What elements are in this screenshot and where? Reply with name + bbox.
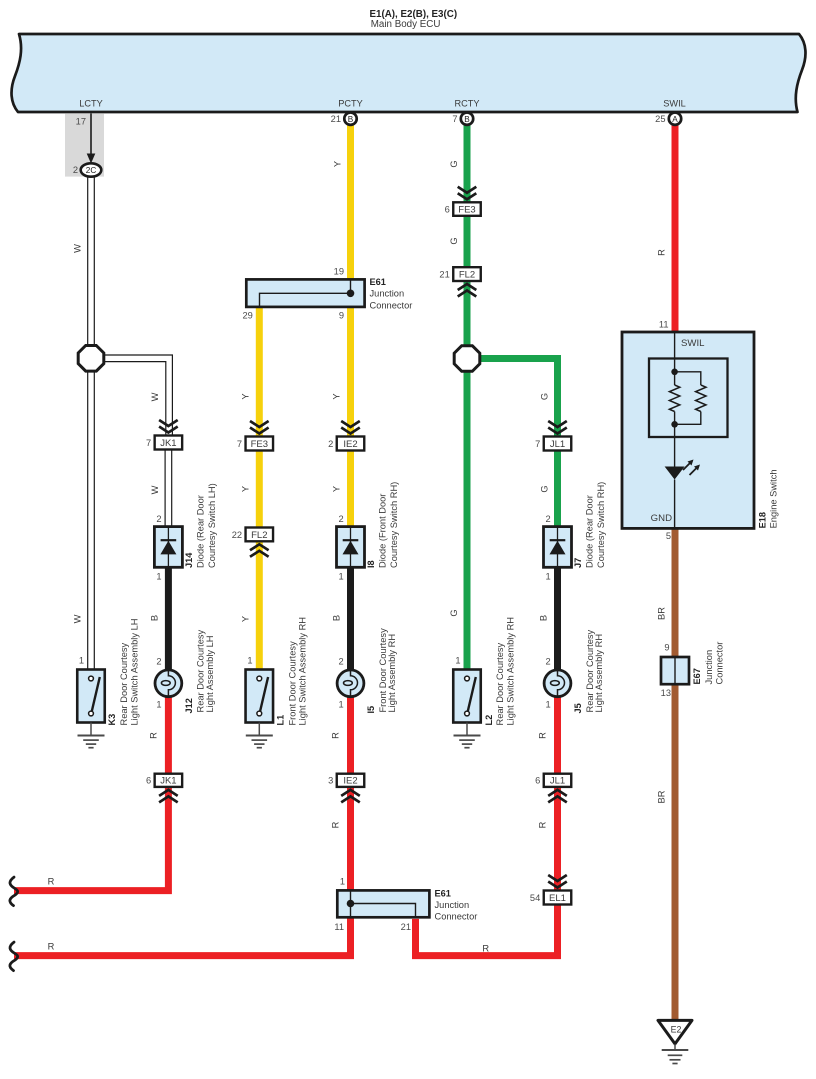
svg-text:Rear Door Courtesy: Rear Door Courtesy [119, 642, 129, 725]
svg-text:FE3: FE3 [458, 204, 475, 215]
svg-text:21: 21 [439, 270, 449, 280]
svg-text:B: B [150, 615, 160, 621]
svg-text:RCTY: RCTY [454, 99, 479, 109]
svg-text:2: 2 [156, 514, 161, 524]
svg-text:1: 1 [340, 877, 345, 887]
svg-text:2: 2 [546, 514, 551, 524]
svg-text:FE3: FE3 [251, 439, 268, 450]
svg-text:R: R [48, 877, 55, 887]
svg-text:JL1: JL1 [550, 439, 565, 450]
svg-text:E61: E61 [370, 277, 386, 287]
svg-text:Courtesy Switch RH): Courtesy Switch RH) [389, 482, 399, 568]
svg-text:Diode (Front Door: Diode (Front Door [378, 494, 388, 568]
svg-text:E61: E61 [435, 888, 451, 898]
svg-text:Front Door Courtesy: Front Door Courtesy [287, 641, 297, 726]
svg-text:R: R [538, 732, 548, 739]
svg-text:Junction: Junction [704, 650, 714, 685]
svg-text:1: 1 [455, 656, 460, 666]
svg-text:Y: Y [333, 161, 343, 167]
svg-text:G: G [540, 485, 550, 492]
svg-text:1: 1 [79, 656, 84, 666]
svg-text:Y: Y [241, 486, 251, 492]
svg-text:1: 1 [156, 572, 161, 582]
svg-text:W: W [150, 392, 160, 401]
svg-text:I5: I5 [366, 706, 376, 714]
svg-text:G: G [449, 160, 459, 167]
svg-text:2: 2 [73, 165, 78, 175]
svg-text:22: 22 [232, 530, 242, 540]
svg-text:25: 25 [655, 114, 665, 124]
svg-text:B: B [539, 615, 549, 621]
svg-text:R: R [331, 732, 341, 739]
svg-text:Junction: Junction [435, 900, 470, 910]
svg-text:R: R [657, 249, 667, 256]
svg-text:7: 7 [146, 438, 151, 448]
svg-text:21: 21 [401, 922, 411, 932]
svg-text:B: B [332, 615, 342, 621]
svg-text:2: 2 [339, 514, 344, 524]
svg-text:Engine Switch: Engine Switch [769, 469, 779, 528]
svg-text:E2: E2 [671, 1025, 682, 1035]
svg-text:7: 7 [535, 439, 540, 449]
svg-text:11: 11 [659, 320, 669, 330]
svg-text:Connector: Connector [370, 300, 413, 310]
svg-text:3: 3 [328, 776, 333, 786]
svg-text:R: R [149, 732, 159, 739]
svg-text:G: G [449, 237, 459, 244]
svg-text:2: 2 [328, 439, 333, 449]
svg-text:G: G [449, 609, 459, 616]
svg-text:G: G [540, 393, 550, 400]
svg-text:Diode (Rear Door: Diode (Rear Door [196, 495, 206, 568]
svg-text:B: B [464, 115, 470, 124]
svg-text:W: W [73, 244, 83, 253]
svg-text:FL2: FL2 [459, 270, 475, 281]
svg-text:Y: Y [332, 486, 342, 492]
svg-text:1: 1 [156, 700, 161, 710]
svg-text:6: 6 [146, 776, 151, 786]
svg-text:Connector: Connector [435, 912, 478, 922]
svg-text:J7: J7 [573, 558, 583, 568]
svg-text:J14: J14 [184, 552, 194, 568]
svg-text:I8: I8 [366, 560, 376, 568]
svg-text:BR: BR [657, 607, 667, 620]
svg-text:2C: 2C [86, 166, 97, 175]
svg-text:9: 9 [339, 311, 344, 321]
svg-text:A: A [672, 115, 678, 124]
svg-text:R: R [331, 821, 341, 828]
svg-text:5: 5 [666, 531, 671, 541]
svg-text:JK1: JK1 [160, 438, 176, 449]
svg-text:19: 19 [334, 267, 344, 277]
svg-text:9: 9 [664, 643, 669, 653]
svg-text:29: 29 [242, 311, 252, 321]
svg-text:17: 17 [76, 117, 86, 127]
svg-text:SWIL: SWIL [663, 99, 685, 109]
svg-text:7: 7 [237, 439, 242, 449]
svg-text:JL1: JL1 [550, 776, 565, 787]
svg-text:Rear Door Courtesy: Rear Door Courtesy [495, 642, 505, 725]
svg-text:R: R [482, 944, 489, 954]
svg-text:6: 6 [535, 776, 540, 786]
svg-text:6: 6 [445, 204, 450, 214]
svg-text:R: R [538, 821, 548, 828]
svg-text:Light Assembly RH: Light Assembly RH [594, 634, 604, 713]
svg-text:B: B [348, 115, 354, 124]
svg-text:Light Assembly LH: Light Assembly LH [205, 636, 215, 713]
svg-text:FL2: FL2 [251, 530, 267, 541]
svg-text:PCTY: PCTY [338, 99, 363, 109]
svg-text:7: 7 [452, 114, 457, 124]
svg-text:Light Switch Assembly LH: Light Switch Assembly LH [129, 619, 139, 726]
svg-text:Junction: Junction [370, 289, 405, 299]
svg-text:IE2: IE2 [343, 439, 357, 450]
svg-text:J12: J12 [184, 698, 194, 713]
svg-text:Main Body ECU: Main Body ECU [371, 19, 441, 30]
svg-text:2: 2 [546, 657, 551, 667]
svg-text:Light Switch Assembly RH: Light Switch Assembly RH [505, 617, 515, 726]
svg-text:2: 2 [339, 657, 344, 667]
svg-text:Courtesy Switch RH): Courtesy Switch RH) [596, 482, 606, 568]
svg-text:J5: J5 [573, 703, 583, 713]
svg-text:E67: E67 [692, 668, 702, 684]
svg-text:1: 1 [546, 700, 551, 710]
svg-text:2: 2 [156, 657, 161, 667]
svg-text:JK1: JK1 [160, 776, 176, 787]
svg-text:E18: E18 [758, 512, 768, 528]
svg-text:1: 1 [339, 572, 344, 582]
svg-text:W: W [150, 485, 160, 494]
svg-text:SWIL: SWIL [681, 338, 705, 349]
svg-text:L1: L1 [276, 715, 286, 726]
svg-text:W: W [73, 614, 83, 623]
svg-text:Connector: Connector [715, 642, 725, 685]
svg-text:54: 54 [530, 893, 540, 903]
svg-text:11: 11 [334, 922, 344, 932]
svg-text:L2: L2 [484, 715, 494, 726]
svg-text:K3: K3 [107, 714, 117, 726]
svg-text:Light Switch Assembly RH: Light Switch Assembly RH [298, 617, 308, 726]
svg-text:Y: Y [241, 616, 251, 622]
svg-text:Courtesy Switch LH): Courtesy Switch LH) [207, 483, 217, 568]
svg-text:Light Assembly RH: Light Assembly RH [387, 634, 397, 713]
svg-text:13: 13 [661, 688, 671, 698]
svg-text:Diode (Rear Door: Diode (Rear Door [585, 495, 595, 568]
svg-text:1: 1 [546, 572, 551, 582]
svg-text:LCTY: LCTY [79, 99, 103, 109]
svg-text:EL1: EL1 [549, 893, 566, 904]
svg-text:Y: Y [241, 393, 251, 399]
svg-text:GND: GND [651, 513, 672, 524]
svg-text:21: 21 [331, 114, 341, 124]
svg-text:IE2: IE2 [343, 776, 357, 787]
svg-text:BR: BR [657, 790, 667, 803]
svg-text:Y: Y [332, 393, 342, 399]
svg-text:1: 1 [247, 656, 252, 666]
svg-text:R: R [48, 942, 55, 952]
svg-text:1: 1 [339, 700, 344, 710]
